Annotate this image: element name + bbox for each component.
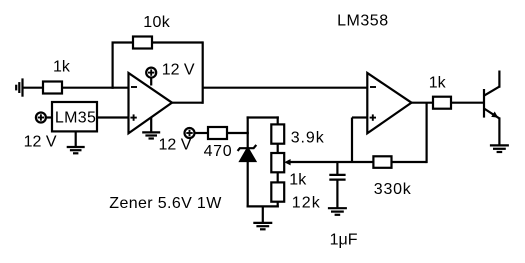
resistor R2 10k (feedback) bbox=[133, 37, 152, 49]
capacitor C1 1uF bbox=[329, 162, 345, 208]
wire feedback top left bbox=[112, 41, 134, 43]
svg-text:12k: 12k bbox=[292, 194, 321, 211]
LM35 temperature sensor U2 bbox=[52, 102, 97, 131]
wiper arrow of R5 bbox=[284, 159, 290, 165]
wire R1 to U1A inverting input bbox=[62, 87, 129, 89]
op-amp U1A bbox=[129, 73, 173, 133]
svg-text:LM358: LM358 bbox=[337, 13, 388, 30]
ground divider bbox=[253, 206, 272, 229]
supply +12V zener branch bbox=[185, 128, 195, 138]
wire feedback left vertical bbox=[111, 43, 113, 89]
wire feedback top right bbox=[152, 41, 203, 43]
svg-text:1k: 1k bbox=[289, 172, 307, 189]
svg-text:1k: 1k bbox=[53, 59, 71, 76]
ground under LM35 bbox=[67, 131, 85, 153]
wire supply to R3 bbox=[195, 132, 209, 134]
ground under U1A bbox=[142, 117, 160, 139]
potentiometer R5 1k body bbox=[271, 153, 284, 172]
wire R8 to Q1 base bbox=[451, 102, 484, 104]
svg-text:3.9k: 3.9k bbox=[291, 130, 325, 147]
svg-text:1μF: 1μF bbox=[330, 232, 358, 249]
wire U1B non-inverting input horizontal bbox=[352, 116, 367, 118]
wire divider chain bottom bbox=[277, 202, 279, 208]
wire bottom rail bbox=[247, 205, 279, 207]
svg-text:470: 470 bbox=[204, 143, 232, 160]
svg-text:1k: 1k bbox=[429, 74, 447, 91]
ground under C1 bbox=[328, 208, 347, 215]
resistor R4 3.9k bbox=[271, 124, 284, 143]
supply +12V LM35 bbox=[36, 113, 52, 123]
svg-text:12 V: 12 V bbox=[24, 134, 57, 151]
wire U1B output bbox=[411, 102, 434, 104]
wire R7 to output node bbox=[392, 161, 427, 163]
svg-text:330k: 330k bbox=[374, 181, 412, 198]
svg-text:10k: 10k bbox=[143, 14, 171, 31]
wire ground to R1 bbox=[23, 87, 44, 89]
wire divider chain top bbox=[277, 116, 279, 124]
wire U1B non-inverting input vertical bbox=[351, 118, 353, 163]
supply +12V U1A bbox=[146, 68, 156, 86]
ground GND1 (signal input ground, left side, sideways) bbox=[16, 78, 22, 96]
svg-text:12 V: 12 V bbox=[159, 137, 192, 154]
wire feedback right vertical to U1A output bbox=[202, 41, 204, 103]
wire wiper to U1B non-inverting node bbox=[290, 161, 374, 163]
svg-text:LM35: LM35 bbox=[55, 109, 96, 126]
wire U1A output bbox=[171, 102, 203, 104]
resistor R6 12k bbox=[271, 182, 284, 201]
resistor R8 1k bbox=[433, 97, 451, 109]
wire zener branch vertical upper bbox=[247, 116, 249, 148]
zener diode D1 bbox=[238, 145, 257, 161]
wire zener branch vertical lower bbox=[247, 160, 249, 208]
wire R5 to R6 bbox=[277, 172, 279, 182]
wire R4 to R5 bbox=[277, 144, 279, 153]
ground under Q1 emitter bbox=[490, 145, 509, 152]
resistor R1 1k bbox=[43, 82, 62, 94]
transistor Q1 bbox=[484, 71, 499, 146]
wire U1A output to U1B inverting input bbox=[203, 87, 368, 89]
resistor R3 470 bbox=[208, 127, 227, 139]
wire R3 to zener node bbox=[227, 132, 249, 134]
resistor R7 330k bbox=[373, 156, 391, 168]
svg-text:Zener 5.6V 1W: Zener 5.6V 1W bbox=[109, 195, 222, 212]
wire output node vertical bbox=[426, 103, 428, 163]
wire top rail zener to divider bbox=[247, 116, 279, 118]
svg-text:12 V: 12 V bbox=[162, 61, 195, 78]
wire LM35 output to U1A non-inverting input bbox=[97, 116, 129, 118]
op-amp U1B bbox=[367, 73, 411, 133]
